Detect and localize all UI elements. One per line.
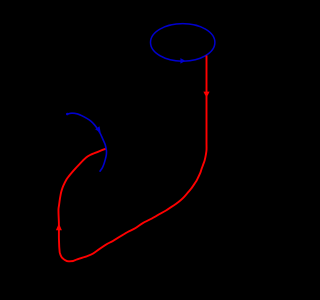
blue arrowhead on arc (pointing down-right along arc) [95,126,101,133]
stable limit cycle (blue ellipse) [151,24,215,62]
unstable cycle arc (blue) [67,113,106,172]
red arrow down (upper-right vertical segment) [203,92,209,98]
red trajectory [58,56,206,262]
blue arc start dot [66,113,69,116]
red arrow up (lower-left vertical segment) [56,223,62,230]
arrowhead on ellipse (pointing right, at bottom of ellipse) [180,58,185,64]
